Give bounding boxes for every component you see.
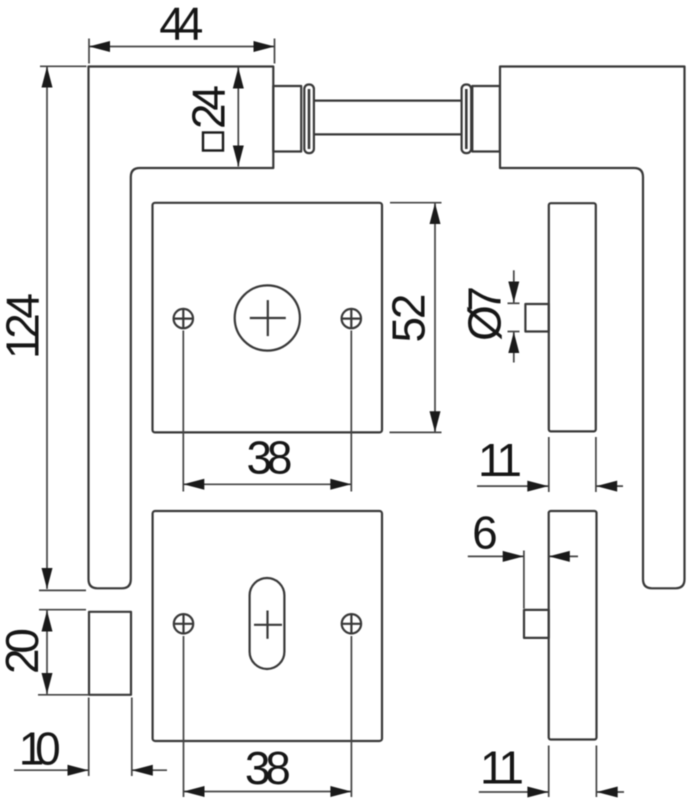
svg-text:38: 38 xyxy=(247,432,293,484)
svg-text:11: 11 xyxy=(478,434,522,486)
svg-text:11: 11 xyxy=(480,742,524,794)
svg-text:38: 38 xyxy=(245,742,291,794)
svg-text:10: 10 xyxy=(19,723,61,775)
svg-text:52: 52 xyxy=(383,294,435,343)
svg-text:44: 44 xyxy=(159,0,203,50)
svg-text:6: 6 xyxy=(472,507,498,559)
svg-text:Ø7: Ø7 xyxy=(459,286,511,341)
svg-text:20: 20 xyxy=(0,628,48,674)
svg-text:124: 124 xyxy=(0,293,49,359)
svg-text:24: 24 xyxy=(182,85,234,129)
